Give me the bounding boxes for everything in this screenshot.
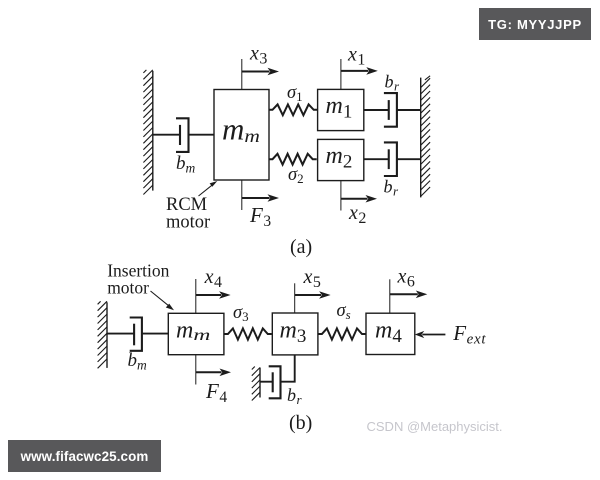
- svg-text:m2: m2: [326, 143, 353, 173]
- svg-text:F3: F3: [249, 203, 271, 230]
- svg-text:br: br: [287, 385, 303, 407]
- F_ext arrow: [415, 331, 446, 338]
- x5 arrow: [295, 291, 331, 299]
- svg-text:br: br: [384, 177, 400, 199]
- damper b_r (b): [260, 366, 281, 398]
- svg-text:mm: mm: [176, 318, 210, 345]
- svg-text:x4: x4: [204, 266, 222, 291]
- wall right (a): [421, 76, 430, 198]
- label Insertion motor: [107, 261, 169, 298]
- label RCM motor: [166, 195, 210, 233]
- svg-text:Fext: Fext: [452, 321, 486, 348]
- damper b_m (b): [107, 318, 168, 351]
- mass m2: [318, 139, 364, 180]
- damper b_r upper (a): [364, 93, 421, 127]
- svg-text:σ3: σ3: [233, 303, 249, 324]
- svg-text:(b): (b): [289, 412, 312, 434]
- mass m3: [272, 313, 318, 355]
- svg-text:m3: m3: [280, 318, 307, 348]
- svg-text:σ2: σ2: [288, 165, 304, 186]
- x1 arrow: [341, 67, 378, 75]
- svg-text:x3: x3: [249, 43, 267, 68]
- spring sigma2: [269, 154, 317, 165]
- x6 stem: [389, 279, 391, 313]
- watermark badge TG: MYYJJPP: [479, 8, 591, 40]
- svg-text:x2: x2: [348, 202, 366, 227]
- svg-text:x6: x6: [397, 266, 415, 291]
- spring sigma1: [269, 104, 318, 115]
- wall left (a): [143, 70, 152, 195]
- F4 stem: [195, 355, 197, 385]
- x6 arrow: [390, 291, 428, 299]
- watermark badge www.fifacwc25.com: [8, 440, 161, 472]
- svg-text:br: br: [385, 72, 401, 94]
- ground wall line (b): [252, 367, 260, 401]
- svg-text:σ1: σ1: [287, 83, 303, 104]
- Insertion pointer arrow: [151, 291, 175, 310]
- svg-text:motor: motor: [107, 278, 149, 298]
- x2 stem: [340, 181, 342, 211]
- F3 stem: [241, 180, 243, 210]
- svg-text:(a): (a): [290, 236, 312, 258]
- svg-text:CSDN @Metaphysicist.: CSDN @Metaphysicist.: [367, 419, 503, 434]
- x3 arrow: [242, 68, 279, 76]
- x4 arrow: [196, 291, 231, 299]
- F3 arrow: [242, 194, 279, 202]
- x5 stem: [294, 283, 296, 313]
- svg-text:x5: x5: [303, 266, 321, 291]
- x3 stem: [241, 59, 243, 90]
- wall left (b): [98, 301, 107, 368]
- x4 stem: [195, 279, 197, 313]
- x1 stem: [340, 59, 342, 89]
- svg-text:F4: F4: [205, 379, 227, 406]
- x2 arrow: [341, 195, 377, 203]
- svg-text:bm: bm: [128, 350, 148, 373]
- F4 arrow: [196, 369, 231, 377]
- mass m1: [318, 89, 364, 130]
- svg-text:σs: σs: [337, 301, 351, 322]
- mass m4: [366, 313, 415, 354]
- spring sigma_s: [318, 328, 366, 339]
- RCM pointer arrow: [199, 181, 218, 196]
- svg-text:motor: motor: [166, 213, 210, 233]
- spring sigma3: [224, 328, 272, 339]
- svg-text:bm: bm: [176, 153, 196, 176]
- svg-text:m1: m1: [326, 93, 353, 123]
- mass m_m (b): [168, 313, 224, 354]
- mass m_m (a): [214, 90, 269, 181]
- svg-text:m4: m4: [375, 318, 402, 348]
- svg-text:mm: mm: [222, 112, 260, 147]
- m3 lower stem: [281, 355, 295, 382]
- svg-text:x1: x1: [347, 44, 365, 69]
- damper b_r lower (a): [364, 142, 421, 176]
- damper b_m (a): [153, 118, 214, 152]
